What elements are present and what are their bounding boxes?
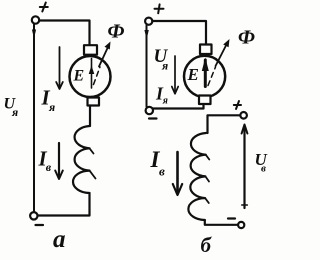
brush bottom (right motor) bbox=[199, 96, 211, 105]
svg-text:в: в bbox=[159, 164, 165, 179]
arrow I field (left) bbox=[58, 143, 60, 177]
flux line dashed inside motor (left) bbox=[94, 67, 101, 85]
flux line dashed inside motor (right) bbox=[208, 67, 216, 86]
flux arrow F (right) bbox=[216, 45, 227, 67]
minus label (excitation) bbox=[228, 217, 235, 219]
brush bottom (left motor) bbox=[88, 98, 100, 106]
brush top (left motor) bbox=[84, 45, 97, 55]
current arrowhead on wire bbox=[32, 30, 36, 39]
svg-text:Ф: Ф bbox=[238, 27, 255, 49]
field coil L1 (left) bbox=[73, 126, 90, 193]
terminal (right minus) bbox=[146, 107, 153, 114]
svg-text:E: E bbox=[73, 68, 85, 85]
wire top (right circuit) bbox=[152, 21, 206, 45]
svg-text:а: а bbox=[53, 226, 66, 253]
terminal (right top) bbox=[145, 18, 152, 25]
svg-text:в: в bbox=[261, 163, 266, 175]
wire top (left circuit) bbox=[39, 21, 89, 46]
emf arrow inside motor (right) bbox=[204, 60, 207, 87]
svg-text:я: я bbox=[161, 59, 168, 73]
arrow U field (right) bbox=[243, 126, 245, 208]
field coil L2 (right) bbox=[188, 133, 206, 220]
svg-text:в: в bbox=[46, 160, 52, 174]
svg-text:Ф: Ф bbox=[108, 20, 125, 42]
wire excitation top bbox=[208, 115, 241, 133]
wire coil to bottom (left) bbox=[38, 193, 90, 216]
arrow I field (right) bbox=[176, 152, 179, 192]
motor M2 circle bbox=[184, 56, 225, 97]
minus label (left) bbox=[36, 224, 44, 226]
plus terminal label (excitation) bbox=[234, 101, 241, 109]
wire brush to coil (left) bbox=[89, 106, 91, 127]
emf arrow inside motor (left) bbox=[91, 59, 93, 89]
svg-text:я: я bbox=[162, 96, 168, 107]
brush top (right motor) bbox=[200, 45, 212, 55]
wire left vertical (left circuit) bbox=[33, 25, 35, 212]
minus label (right armature) bbox=[149, 117, 157, 119]
terminal (left bottom) bbox=[30, 212, 37, 219]
wire left vertical (right circuit) bbox=[146, 26, 148, 107]
plus terminal label (left) bbox=[40, 3, 48, 12]
wire brush to minus terminal (right) bbox=[153, 104, 204, 109]
wire coil to minus (excitation) bbox=[205, 220, 238, 225]
terminal (excitation minus) bbox=[238, 222, 244, 228]
svg-text:E: E bbox=[187, 65, 199, 84]
svg-text:я: я bbox=[48, 100, 55, 114]
flux arrow F (left) bbox=[99, 47, 108, 67]
svg-text:б: б bbox=[201, 233, 213, 257]
svg-text:я: я bbox=[11, 105, 18, 119]
motor M1 circle bbox=[70, 56, 111, 97]
coil L1 crossover tails bbox=[90, 148, 96, 178]
coil L2 crossover tails bbox=[205, 155, 209, 203]
arrow U armature (right) bbox=[174, 56, 176, 92]
arrow I armature (left) bbox=[59, 47, 61, 88]
terminal (excitation plus) bbox=[240, 112, 247, 119]
terminal (left top) bbox=[32, 16, 39, 23]
plus terminal label (right top) bbox=[155, 4, 164, 13]
current arrowhead on wire (right) bbox=[144, 30, 148, 40]
